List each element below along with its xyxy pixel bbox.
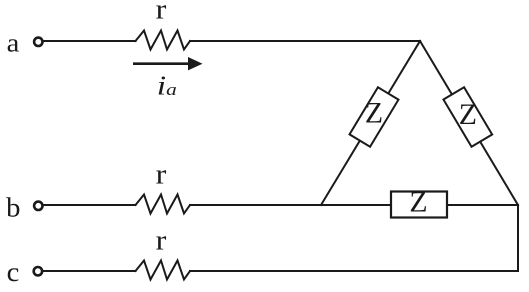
svg-text:Z: Z <box>365 98 383 130</box>
wire vertical (c line up to delta right vertex) <box>517 205 519 271</box>
terminal circle c <box>34 267 42 275</box>
svg-text:r: r <box>156 158 167 190</box>
svg-text:Z: Z <box>409 187 427 219</box>
wire a (terminal to resistor) <box>44 40 136 42</box>
wire b (resistor to delta bottom side, through Z3 to right vertex) <box>190 204 518 206</box>
impedance Z3 (bottom delta branch) box <box>391 192 447 218</box>
resistor r (phase c) <box>136 261 191 280</box>
delta left side wire <box>321 41 420 205</box>
terminal circle a <box>34 38 42 46</box>
impedance Z2 (right delta branch) box <box>443 87 492 147</box>
delta right side wire <box>420 41 518 205</box>
svg-text:Z: Z <box>459 99 477 131</box>
svg-text:b: b <box>6 193 20 223</box>
resistor r (phase a) <box>136 31 191 50</box>
wire c (resistor to right corner) <box>190 270 518 272</box>
wire a (resistor to delta apex) <box>190 40 420 42</box>
svg-text:a: a <box>7 28 20 57</box>
current arrow i_a head <box>188 57 203 70</box>
terminal circle b <box>34 202 42 210</box>
wire c (terminal to resistor) <box>44 270 136 272</box>
wire b (terminal to resistor) <box>44 204 136 206</box>
current arrow i_a shaft <box>133 62 192 65</box>
svg-text:r: r <box>156 0 167 25</box>
impedance Z1 (left delta branch) box <box>350 87 399 146</box>
svg-text:r: r <box>156 224 167 256</box>
resistor r (phase b) <box>136 195 191 214</box>
svg-text:c: c <box>7 258 20 288</box>
